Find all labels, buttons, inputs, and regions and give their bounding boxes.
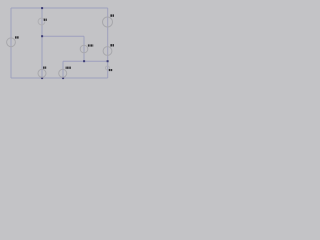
- label VSB2: [66, 67, 71, 69]
- wire branch horizontal (42,36.2)-(84,36.2): [42, 35, 84, 37]
- resistor R1 circle: [38, 18, 45, 25]
- label VSB1: [88, 44, 93, 46]
- node junction (42,78): [41, 77, 43, 79]
- wire bottom (11,78)-(108,78): [11, 77, 108, 79]
- source V6 circle: [7, 38, 16, 47]
- label R2: [109, 69, 112, 71]
- node junction (42,8): [41, 7, 43, 9]
- label V3: [110, 14, 114, 16]
- label C1: [110, 44, 114, 46]
- node junction (84,61.2): [83, 60, 85, 62]
- wire branch down (84,36.2)-(84,61.2): [83, 36, 85, 61]
- wire top (11,8)-(108,8): [11, 7, 108, 9]
- label V6: [15, 36, 19, 38]
- wire left (11,8)-(11,78): [10, 8, 12, 78]
- background: [0, 0, 120, 90]
- meter VSB1 circle: [80, 45, 88, 53]
- capacitor C1 circle: [103, 47, 112, 56]
- wire mid-low horizontal (63,61.2)-(107.7,61.2): [63, 60, 108, 62]
- source V3 circle: [103, 17, 113, 27]
- node junction (42,36.2): [41, 35, 43, 37]
- meter VSB2 circle: [59, 69, 67, 77]
- wire down to VSB2 (63,61.2)-(63,78): [62, 61, 64, 78]
- label R1: [44, 19, 47, 21]
- label H3: [43, 67, 46, 69]
- lamp H3 circle: [38, 69, 46, 77]
- resistor R2 circle: [106, 66, 110, 70]
- wire right (108,8)-(108,78): [107, 8, 109, 78]
- node junction (63,78): [62, 77, 64, 79]
- node junction (107.5,61.2): [107, 60, 109, 62]
- wire middle vertical (42,8)-(42,78): [41, 8, 43, 78]
